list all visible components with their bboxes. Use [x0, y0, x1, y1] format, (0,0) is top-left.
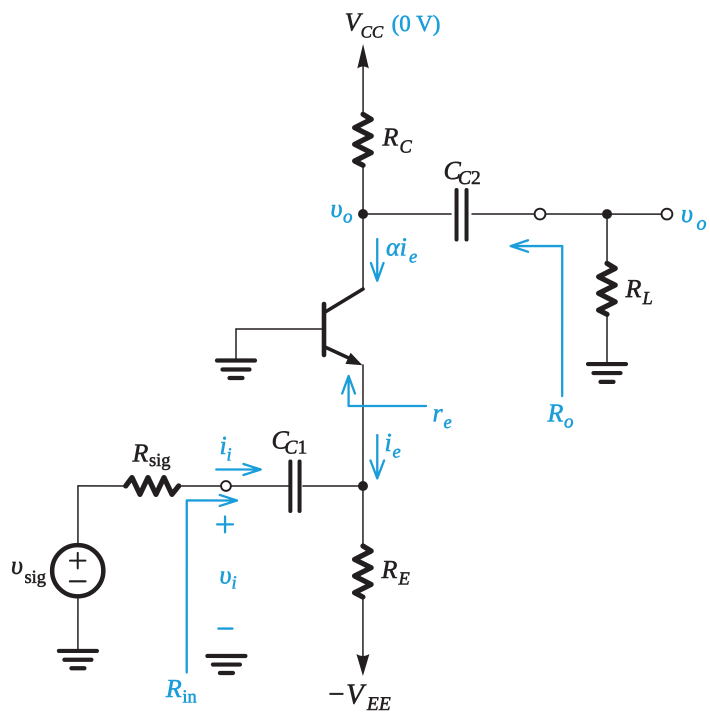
svg-text:in: in — [182, 687, 196, 707]
svg-text:R: R — [165, 674, 182, 703]
ground vi reference — [207, 656, 245, 673]
wire RL node down — [606, 214, 608, 263]
wire vsig to ground — [77, 597, 79, 650]
wire CC2 to open terminal — [472, 213, 534, 215]
wire node vo to transistor collector — [362, 214, 364, 289]
svg-text:CC: CC — [361, 23, 384, 42]
capacitor CC2 — [457, 190, 467, 240]
svg-text:R: R — [131, 438, 148, 467]
open terminal input — [221, 481, 231, 491]
svg-text:E: E — [397, 570, 409, 590]
svg-text:sig: sig — [149, 451, 171, 471]
open terminal vo right — [662, 209, 673, 220]
blue arrow ie — [370, 435, 384, 478]
resistor Rsig — [126, 478, 179, 495]
wire RE to VEE — [362, 597, 364, 658]
wire base to ground — [236, 328, 322, 330]
wire collector top shaft — [362, 58, 364, 115]
wire RL to ground — [606, 314, 608, 363]
svg-text:R: R — [546, 399, 563, 428]
svg-text:o: o — [343, 206, 353, 227]
svg-text:υ: υ — [219, 560, 231, 589]
wire node vo to CC2 — [368, 213, 451, 215]
svg-text:R: R — [382, 123, 399, 152]
svg-text:R: R — [625, 274, 642, 303]
wire base ground drop — [235, 329, 237, 359]
blue arrow ii — [216, 464, 260, 475]
svg-text:i: i — [384, 428, 391, 457]
node emitter junction dot — [358, 481, 368, 491]
blue arrow re — [342, 376, 426, 406]
wire emitter node to RE — [362, 486, 364, 546]
source vsig minus — [70, 580, 86, 582]
source vsig circle — [52, 545, 103, 596]
label vi minus — [218, 627, 232, 629]
ground base — [217, 360, 255, 378]
source vsig plus — [70, 553, 86, 569]
svg-text:e: e — [443, 413, 451, 433]
svg-text:υ: υ — [681, 199, 693, 228]
svg-text:e: e — [392, 443, 400, 463]
blue arrow Ro — [511, 240, 563, 396]
wire Rsig to input terminal — [179, 485, 221, 487]
svg-text:(0 V): (0 V) — [392, 11, 441, 36]
wire vsig up — [77, 486, 79, 545]
svg-text:C2: C2 — [458, 168, 481, 189]
svg-text:i: i — [231, 573, 236, 593]
svg-text:e: e — [409, 248, 417, 268]
wire vsig to Rsig — [78, 485, 126, 487]
resistor RC — [355, 114, 372, 165]
node vo junction dot — [358, 209, 368, 219]
svg-text:EE: EE — [366, 694, 391, 715]
arrowhead to -VEE — [356, 654, 369, 676]
svg-text:o: o — [697, 213, 707, 235]
wire terminal to RL node — [546, 213, 661, 215]
wire RC to node vo — [362, 165, 364, 214]
svg-text:υ: υ — [11, 551, 23, 580]
svg-text:r: r — [432, 398, 443, 427]
svg-text:sig: sig — [24, 568, 46, 588]
svg-text:C: C — [400, 138, 413, 158]
open terminal after CC2 — [535, 209, 546, 220]
label vi plus — [217, 516, 233, 532]
ground vsig — [59, 651, 97, 668]
wire terminal to CC1 — [232, 485, 289, 487]
svg-text:R: R — [380, 555, 397, 584]
blue arrow alpha ie — [371, 239, 384, 281]
wire CC1 to emitter node — [303, 485, 363, 487]
svg-text:αi: αi — [386, 233, 407, 262]
transistor Q1 emitter arrowhead — [345, 353, 362, 365]
node RL junction dot — [602, 209, 612, 219]
wire emitter down to input node — [362, 365, 364, 486]
capacitor CC1 — [290, 461, 299, 511]
svg-text:L: L — [642, 289, 653, 309]
svg-text:−V: −V — [326, 678, 367, 710]
svg-text:C1: C1 — [284, 437, 307, 458]
resistor RL — [599, 263, 616, 314]
arrowhead to VCC — [357, 44, 369, 69]
blue arrow Rin — [187, 495, 237, 673]
resistor RE — [355, 546, 372, 597]
transistor Q1 base bar — [322, 304, 327, 355]
ground RL — [588, 364, 626, 382]
transistor Q1 collector stroke — [326, 289, 363, 312]
svg-text:o: o — [564, 412, 574, 433]
svg-text:i: i — [226, 445, 231, 465]
svg-text:υ: υ — [331, 194, 343, 223]
transistor Q1 emitter stroke — [326, 347, 352, 359]
